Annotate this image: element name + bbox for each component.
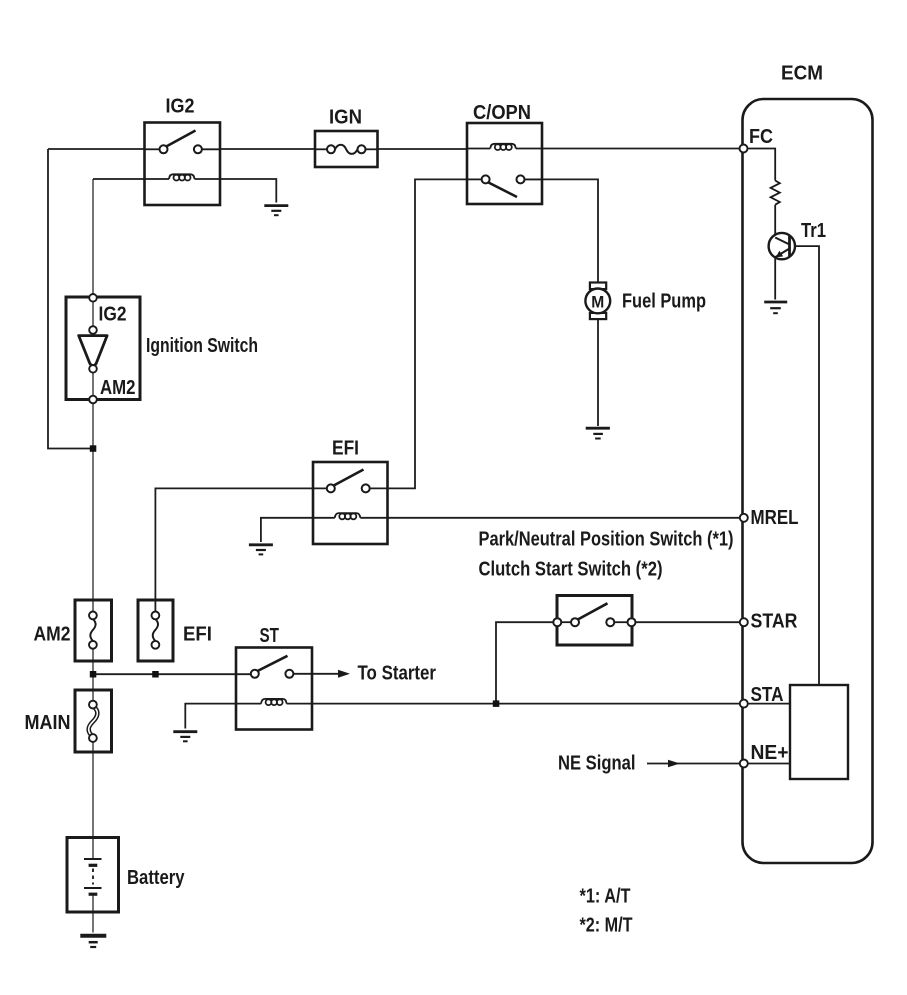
svg-text:STAR: STAR xyxy=(751,611,798,633)
svg-text:IG2: IG2 xyxy=(166,96,195,118)
svg-text:IGN: IGN xyxy=(329,107,362,129)
svg-text:M: M xyxy=(591,293,604,312)
svg-text:Park/Neutral Position Switch (: Park/Neutral Position Switch (*1) xyxy=(479,529,734,551)
svg-text:*1: A/T: *1: A/T xyxy=(580,886,631,908)
svg-text:To Starter: To Starter xyxy=(358,663,437,685)
svg-text:FC: FC xyxy=(749,126,773,148)
svg-text:EFI: EFI xyxy=(332,438,359,460)
svg-text:*2: M/T: *2: M/T xyxy=(580,914,633,936)
svg-text:AM2: AM2 xyxy=(34,623,71,645)
svg-text:Clutch Start Switch (*2): Clutch Start Switch (*2) xyxy=(479,559,663,581)
svg-text:NE Signal: NE Signal xyxy=(558,752,636,774)
svg-text:Tr1: Tr1 xyxy=(801,220,826,242)
svg-text:Fuel Pump: Fuel Pump xyxy=(622,290,706,312)
svg-text:AM2: AM2 xyxy=(100,377,136,399)
svg-text:MREL: MREL xyxy=(751,507,799,529)
svg-text:C/OPN: C/OPN xyxy=(473,102,531,124)
svg-text:STA: STA xyxy=(751,684,784,706)
svg-text:ECM: ECM xyxy=(781,63,823,85)
svg-text:MAIN: MAIN xyxy=(25,712,71,734)
svg-text:ST: ST xyxy=(260,625,280,647)
svg-text:Ignition Switch: Ignition Switch xyxy=(146,335,258,357)
svg-text:NE+: NE+ xyxy=(751,742,789,764)
svg-text:EFI: EFI xyxy=(183,623,212,645)
svg-text:IG2: IG2 xyxy=(99,304,127,326)
svg-text:Battery: Battery xyxy=(127,867,185,889)
